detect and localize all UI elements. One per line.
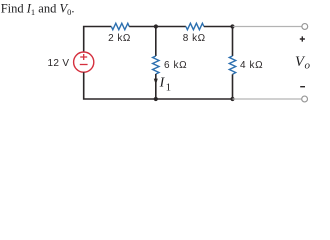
resistor 2 kΩ (zigzag) [111, 23, 129, 29]
wire bottom of 6k branch [155, 74, 157, 99]
terminal top (open circle) [302, 24, 308, 30]
wire gray to bottom output terminal [233, 98, 302, 100]
junction dot bottom of 4k [230, 97, 234, 101]
wire top-left (source top to 2k resistor) [84, 27, 112, 52]
svg-text:Find I1 and V0.: Find I1 and V0. [1, 1, 75, 17]
wire bottom (6k node to 4k node) [156, 98, 233, 100]
junction dot bottom of 6k [154, 97, 158, 101]
svg-text:2 kΩ: 2 kΩ [108, 33, 131, 44]
wire bottom of 4k branch [232, 74, 234, 99]
resistor 4 kΩ (vertical zigzag) [229, 56, 235, 74]
wire top of 6k branch [155, 27, 157, 57]
voltage source 12 V (circle) [74, 52, 94, 72]
minus sign of source [80, 64, 88, 66]
resistor 6 kΩ (vertical zigzag) [153, 56, 159, 74]
wire top-right (8k to node B) [204, 26, 233, 28]
wire top of 4k branch [232, 27, 234, 57]
resistor 8 kΩ (zigzag) [186, 23, 204, 29]
svg-text:8 kΩ: 8 kΩ [183, 33, 206, 44]
wire top-middle (2k to node A) [129, 26, 186, 28]
svg-text:4 kΩ: 4 kΩ [240, 60, 263, 71]
terminal bottom (open circle) [302, 96, 308, 102]
wire source bottom to bottom-left corner [84, 72, 156, 99]
svg-text:6 kΩ: 6 kΩ [164, 60, 187, 71]
svg-text:Vo: Vo [295, 54, 310, 72]
minus sign of output [300, 86, 305, 88]
junction dot node A (top of 6k) [154, 24, 158, 28]
plus sign of source [80, 54, 87, 60]
junction dot node B (top of 4k) [230, 24, 234, 28]
svg-text:12 V: 12 V [48, 58, 70, 69]
current arrow I1 (arrowhead on wire) [154, 79, 158, 85]
plus sign of output [300, 36, 305, 41]
wire gray to top output terminal [233, 26, 302, 28]
svg-text:I1: I1 [159, 75, 172, 93]
